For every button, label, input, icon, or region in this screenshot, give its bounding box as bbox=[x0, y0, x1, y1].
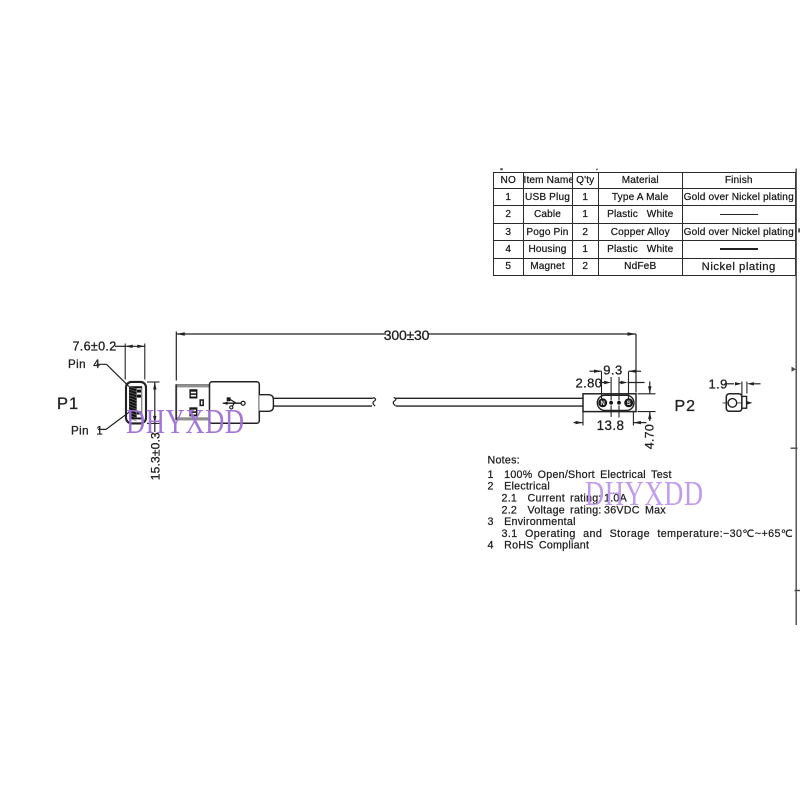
dimension 15.3±0.3 line with arrows bbox=[153, 382, 156, 432]
side view center line bbox=[723, 402, 743, 404]
svg-text:3.1 Operating and Storage temp: 3.1 Operating and Storage temperature:−3… bbox=[502, 528, 794, 540]
svg-text:13.8: 13.8 bbox=[597, 418, 625, 433]
leader line Pin 1 bbox=[98, 411, 130, 429]
svg-text:P1: P1 bbox=[57, 395, 79, 413]
dimension 1.9 extension lines bbox=[741, 382, 743, 396]
dimension 13.8 extension lines bbox=[582, 412, 584, 426]
svg-text:7.6±0.2: 7.6±0.2 bbox=[73, 340, 117, 354]
strain relief neck bbox=[259, 395, 273, 412]
svg-text:2.80: 2.80 bbox=[576, 376, 603, 391]
cable break mark left bbox=[373, 398, 376, 406]
dimension 1.9 line with arrows bbox=[725, 382, 761, 385]
USB plug P1 tongue slot with contacts bbox=[137, 388, 142, 417]
side view pin arrow bbox=[746, 401, 753, 405]
dimension 2.80 extension lines bbox=[611, 377, 619, 418]
cable right segment bbox=[393, 397, 583, 406]
shell window top bbox=[189, 389, 197, 398]
dimension 300±30 line and arrows bbox=[176, 332, 636, 336]
svg-text:S: S bbox=[627, 401, 631, 407]
side view circle bbox=[728, 399, 737, 408]
svg-text:2 Electrical: 2 Electrical bbox=[488, 481, 551, 493]
USB trident logo bbox=[223, 397, 246, 409]
svg-text:DHYXDD: DHYXDD bbox=[585, 475, 704, 513]
svg-text:DHYXDD: DHYXDD bbox=[126, 403, 245, 441]
USB plug P1 front view inner cavity (hatched) bbox=[129, 386, 142, 421]
svg-text:4.70: 4.70 bbox=[643, 424, 657, 449]
pogo connector P2 housing bbox=[583, 394, 636, 412]
dimension 7.6±0.2 line with arrows bbox=[115, 345, 145, 348]
dimension 13.8 line with arrows bbox=[574, 421, 647, 424]
magnet N bbox=[598, 398, 607, 407]
pogo connector side view body bbox=[726, 394, 742, 412]
dimension 300±30 extension line left bbox=[175, 332, 177, 381]
svg-text:1.9: 1.9 bbox=[709, 376, 728, 391]
notes block bbox=[488, 455, 794, 552]
svg-text:P2: P2 bbox=[675, 398, 697, 415]
USB plug side view metal shell bbox=[176, 384, 210, 420]
svg-text:N: N bbox=[601, 401, 605, 407]
pogo connector stadium recess bbox=[597, 395, 634, 410]
pogo pin 1 bbox=[609, 401, 613, 405]
svg-text:300±30: 300±30 bbox=[384, 327, 430, 343]
side view pin block bbox=[742, 396, 747, 408]
dimension 4.70 extension lines bbox=[638, 393, 656, 395]
leader line Pin 4 bbox=[97, 364, 130, 386]
frame dot y230 bbox=[798, 228, 800, 232]
shell window bottom bbox=[189, 407, 197, 416]
svg-text:9.3: 9.3 bbox=[603, 363, 623, 378]
shell small hole bbox=[200, 400, 203, 405]
svg-text:Notes:: Notes: bbox=[488, 455, 520, 467]
speck above table 1 bbox=[500, 168, 503, 170]
dimension 9.3 extension lines bbox=[601, 372, 603, 399]
speck above table 2 bbox=[596, 169, 598, 171]
svg-text:Pin 1: Pin 1 bbox=[71, 424, 103, 437]
frame tick y448 bbox=[791, 447, 798, 449]
dimension 9.3 line with arrows bbox=[590, 370, 642, 373]
svg-text:Pin 4: Pin 4 bbox=[68, 358, 100, 371]
sheet frame right edge bbox=[795, 169, 797, 626]
USB plug P1 front view outer shell bbox=[126, 382, 146, 424]
dimension 300±30 extension line right bbox=[635, 334, 637, 393]
svg-text:4 RoHS Compliant: 4 RoHS Compliant bbox=[488, 539, 590, 551]
dimension 15.3±0.3 extension lines bbox=[147, 381, 160, 383]
frame arrow mark y369 bbox=[792, 367, 797, 372]
pogo pin 2 bbox=[617, 401, 621, 405]
dimension 7.6±0.2 extension lines bbox=[124, 344, 126, 380]
frame tick y590 bbox=[795, 590, 800, 592]
USB plug overmold body bbox=[210, 382, 260, 423]
svg-text:3 Environmental: 3 Environmental bbox=[488, 516, 576, 528]
dimension 4.70 arrows bbox=[648, 382, 651, 422]
bill of materials table bbox=[493, 172, 796, 277]
dimension 2.80 line with arrows bbox=[599, 381, 645, 384]
magnet S bbox=[624, 398, 633, 407]
cable left segment bbox=[273, 398, 375, 407]
cable break mark right bbox=[393, 397, 396, 405]
